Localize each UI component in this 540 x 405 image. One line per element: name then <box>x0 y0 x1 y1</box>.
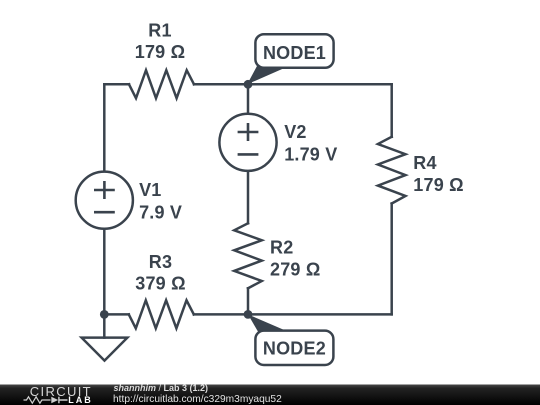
wire middle top <box>247 84 250 113</box>
wire R3 left stub <box>104 313 129 316</box>
resistor R3 <box>129 300 194 328</box>
svg-text:379 Ω: 379 Ω <box>135 274 185 294</box>
resistor R1 <box>129 70 194 98</box>
node NODE2 dot <box>244 310 253 319</box>
wire middle between V2 and R2 <box>247 171 250 223</box>
resistor R2 <box>234 223 262 288</box>
node NODE1 label <box>247 34 333 84</box>
svg-text:http://circuitlab.com/c329m3my: http://circuitlab.com/c329m3myaqu52 <box>113 394 282 405</box>
svg-text:LAB: LAB <box>68 395 93 405</box>
svg-text:1.79 V: 1.79 V <box>284 145 337 165</box>
label R1 value <box>135 21 464 294</box>
logo diode <box>51 397 58 404</box>
wire bottom horizontal <box>194 313 392 316</box>
svg-text:shannhim / Lab 3 (1.2): shannhim / Lab 3 (1.2) <box>114 383 209 393</box>
svg-text:NODE1: NODE1 <box>263 43 326 63</box>
ground <box>82 338 128 361</box>
svg-text:R1: R1 <box>148 21 171 41</box>
svg-text:279 Ω: 279 Ω <box>270 260 320 280</box>
resistor R4 <box>378 137 406 204</box>
wire left vertical bottom <box>103 229 106 315</box>
wire middle bottom <box>247 288 250 314</box>
wire right vertical bottom <box>390 204 393 315</box>
svg-text:179 Ω: 179 Ω <box>413 175 463 195</box>
svg-text:R4: R4 <box>413 153 436 173</box>
svg-text:V1: V1 <box>139 180 161 200</box>
footer bar <box>0 385 540 405</box>
svg-text:R3: R3 <box>149 252 172 272</box>
node NODE2 label <box>248 314 333 365</box>
logo resistor squiggle <box>24 397 51 403</box>
svg-text:179 Ω: 179 Ω <box>135 42 185 62</box>
node NODE1 dot <box>244 80 253 89</box>
voltage source V2 <box>219 114 276 171</box>
wire left vertical top <box>103 84 106 171</box>
svg-text:7.9 V: 7.9 V <box>139 202 182 222</box>
svg-text:NODE2: NODE2 <box>263 339 326 359</box>
node ground junction dot <box>100 310 109 319</box>
svg-text:V2: V2 <box>284 122 306 142</box>
svg-text:R2: R2 <box>270 238 293 258</box>
wire right vertical top <box>390 84 393 137</box>
wire top horizontal to right corner <box>194 83 392 86</box>
wire ground stub <box>103 314 106 337</box>
wire top-left horizontal <box>104 83 129 86</box>
voltage source V1 <box>76 172 133 229</box>
